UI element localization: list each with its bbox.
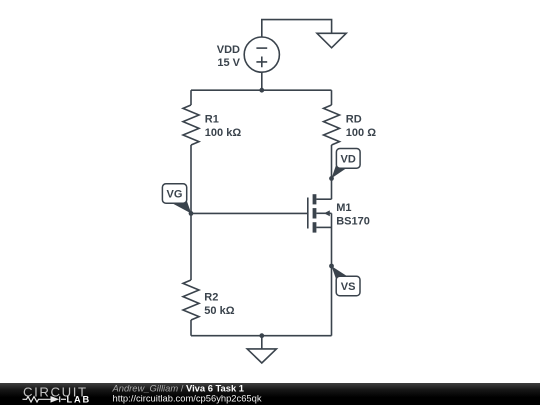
wire right drop to RD	[331, 90, 333, 105]
wire top rail	[191, 89, 332, 91]
wire top ground rail	[262, 20, 332, 37]
resistor RD	[324, 105, 340, 145]
voltage source V1 VDD circle	[244, 37, 279, 72]
resistor R2	[183, 280, 199, 320]
svg-text:VDD: VDD	[217, 44, 240, 56]
svg-text:VS: VS	[341, 281, 356, 293]
svg-text:50 kΩ: 50 kΩ	[204, 305, 234, 317]
svg-text:M1: M1	[336, 202, 351, 214]
svg-text:LAB: LAB	[67, 394, 92, 404]
CircuitLab logo waveform	[23, 396, 67, 402]
node VG flag	[162, 184, 193, 216]
node VD flag	[329, 149, 360, 181]
wire bottom ground stub	[261, 336, 263, 349]
footer bar	[0, 383, 540, 405]
ground (top)	[317, 33, 346, 48]
svg-text:VD: VD	[341, 153, 356, 165]
svg-text:VG: VG	[167, 188, 183, 200]
transistor M1 BS170	[308, 194, 332, 232]
wire R1 to VG node	[190, 145, 192, 213]
resistor R1	[183, 105, 199, 145]
svg-text:R1: R1	[205, 114, 219, 126]
voltage source plus sign	[256, 57, 267, 68]
wire VG node to R2	[190, 213, 192, 280]
voltage source minus sign	[256, 47, 267, 49]
svg-text:15 V: 15 V	[217, 57, 240, 69]
wire R2 to bottom rail	[190, 320, 192, 336]
wire source bottom to top rail	[261, 72, 263, 90]
wire gate lead	[191, 212, 308, 214]
svg-text:R2: R2	[204, 291, 218, 303]
svg-text:http://circuitlab.com/cp56yhp2: http://circuitlab.com/cp56yhp2c65qk	[113, 392, 262, 403]
svg-text:100 Ω: 100 Ω	[346, 127, 376, 139]
wire VD node to drain	[331, 178, 333, 199]
wire RD to VD node	[331, 145, 333, 178]
wire left drop to R1	[190, 90, 192, 105]
ground (bottom)	[247, 349, 276, 363]
svg-text:100 kΩ: 100 kΩ	[205, 127, 242, 139]
svg-text:BS170: BS170	[336, 216, 370, 228]
junction node dot top rail	[259, 88, 264, 93]
wire source vertical to bottom rail	[331, 213, 333, 335]
junction node dot bottom rail	[259, 333, 264, 338]
node VS flag	[329, 264, 360, 296]
wire bottom rail	[191, 335, 332, 337]
svg-text:RD: RD	[346, 114, 362, 126]
